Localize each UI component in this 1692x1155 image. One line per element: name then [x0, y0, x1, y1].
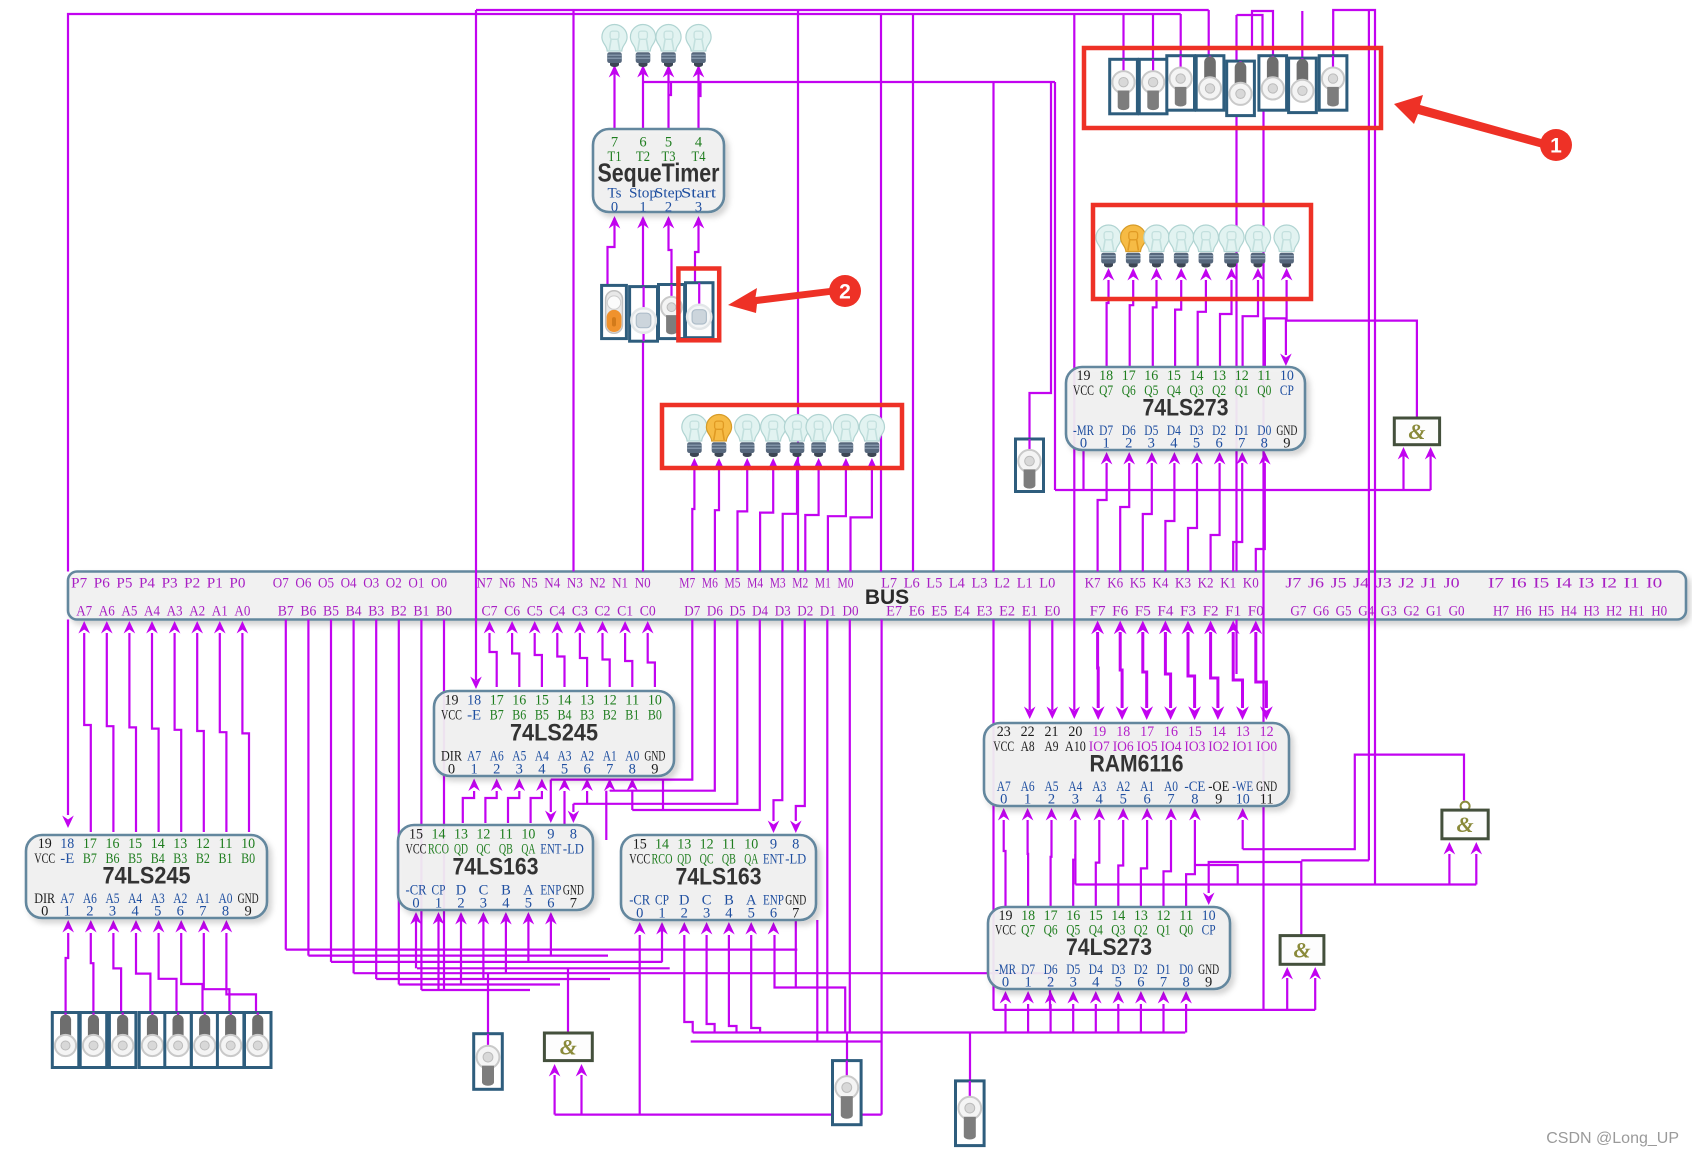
svg-text:4: 4	[502, 895, 510, 911]
svg-text:0: 0	[412, 895, 419, 911]
svg-text:IO0: IO0	[1256, 739, 1277, 755]
svg-text:B2: B2	[196, 851, 210, 867]
svg-text:P0: P0	[229, 576, 245, 592]
svg-text:15: 15	[409, 827, 423, 843]
svg-text:14: 14	[655, 837, 670, 853]
wire x817 to trunk y1041	[816, 920, 818, 1042]
svg-text:12: 12	[1260, 724, 1274, 740]
svg-text:4: 4	[725, 905, 733, 921]
wire AND G3 output to U7 CP	[1209, 862, 1302, 936]
wire bundle U7 Q outputs to RAM address pins	[998, 808, 1201, 907]
svg-text:K3: K3	[1175, 576, 1191, 592]
svg-text:RCO: RCO	[652, 852, 673, 868]
wire BUS E1 to RAM A8	[1029, 620, 1031, 711]
svg-text:15: 15	[633, 837, 647, 853]
wire U5 163b ENP via bracket	[775, 935, 846, 1033]
svg-text:19: 19	[38, 836, 52, 852]
svg-text:1: 1	[1550, 135, 1562, 158]
svg-text:15: 15	[535, 693, 549, 709]
wire connector x881	[880, 620, 882, 1033]
lamp LR1	[1096, 225, 1121, 268]
svg-text:H6: H6	[1516, 604, 1532, 620]
svg-text:M2: M2	[792, 576, 808, 592]
svg-text:74LS163: 74LS163	[453, 854, 539, 881]
svg-text:F2: F2	[1203, 604, 1219, 620]
switch SW1-1 key	[1110, 59, 1138, 114]
svg-text:8: 8	[629, 761, 636, 777]
svg-text:B4: B4	[346, 604, 362, 620]
switch SW1-8 key	[1319, 56, 1347, 110]
svg-text:VCC: VCC	[993, 739, 1014, 755]
svg-text:0: 0	[1002, 975, 1009, 991]
wire trunk C to BUS D5	[573, 620, 737, 804]
svg-text:M4: M4	[747, 576, 763, 592]
svg-text:17: 17	[83, 836, 97, 852]
svg-text:A6: A6	[99, 604, 115, 620]
lamp LR8	[1274, 225, 1299, 268]
lamp LM7	[833, 415, 858, 458]
svg-text:10: 10	[1236, 791, 1250, 807]
switch SW-B key	[474, 1034, 503, 1090]
svg-text:N2: N2	[590, 576, 606, 592]
svg-text:K7: K7	[1085, 576, 1101, 592]
svg-text:A8: A8	[1021, 739, 1035, 755]
svg-text:7: 7	[199, 903, 206, 919]
lamp L1	[602, 24, 627, 67]
svg-text:B0: B0	[436, 604, 452, 620]
wire U0 T1 to lamp L1	[613, 66, 615, 129]
svg-text:F0: F0	[1248, 604, 1264, 620]
wire drop to switch SW1-1	[1122, 14, 1124, 60]
svg-text:L2: L2	[994, 576, 1010, 592]
wire switch SW-B to trunk	[487, 973, 489, 1034]
svg-text:G0: G0	[1449, 604, 1465, 620]
wire drop x993 to BUS and RAM area	[992, 82, 994, 572]
wire AND G1 inputs from rail y490	[1055, 489, 1431, 491]
svg-text:G7: G7	[1290, 604, 1306, 620]
svg-text:J4: J4	[1353, 576, 1370, 592]
svg-text:5: 5	[1115, 975, 1122, 991]
svg-text:6: 6	[547, 895, 554, 911]
lamp L2	[630, 24, 655, 67]
svg-text:N0: N0	[635, 576, 651, 592]
wire switch SW1-6 bracket	[1252, 11, 1273, 56]
switch SW2-2 button	[630, 287, 658, 342]
svg-text:I5: I5	[1533, 576, 1549, 592]
svg-text:1: 1	[470, 761, 477, 777]
svg-text:O7: O7	[273, 576, 289, 592]
svg-text:3: 3	[516, 761, 523, 777]
svg-text:7: 7	[792, 905, 799, 921]
svg-text:CP: CP	[1202, 923, 1216, 939]
svg-text:A4: A4	[144, 604, 160, 620]
wire BUS D2 to U5 163b pin8	[796, 620, 805, 822]
wire bundle U3 B pins to BUS C7-C0	[484, 621, 655, 687]
svg-text:4: 4	[538, 761, 546, 777]
svg-text:12: 12	[1235, 368, 1249, 384]
svg-text:CP: CP	[1280, 383, 1294, 399]
wire switch SW2-4 to U0 Start	[695, 218, 699, 283]
svg-text:I7: I7	[1488, 576, 1505, 592]
svg-text:74LS245: 74LS245	[510, 720, 598, 747]
annotation red box right lamps	[1093, 205, 1311, 299]
svg-text:&: &	[560, 1034, 577, 1059]
wire BUS E0 to RAM A9	[1051, 620, 1053, 711]
wire switch SW2-2 to U0 Stop	[642, 218, 644, 287]
svg-text:23: 23	[997, 724, 1011, 740]
wire switch SW2-3 to U0 Step	[669, 218, 672, 285]
svg-text:4: 4	[1092, 975, 1100, 991]
svg-text:D4: D4	[752, 604, 768, 620]
svg-text:19: 19	[445, 693, 459, 709]
svg-text:D7: D7	[684, 604, 700, 620]
wire U0 T2 to lamp L2 and rail	[642, 66, 644, 129]
svg-text:H3: H3	[1583, 604, 1599, 620]
svg-text:K0: K0	[1243, 576, 1259, 592]
svg-text:Q0: Q0	[1257, 383, 1271, 399]
svg-text:15: 15	[1188, 724, 1202, 740]
wire drop x913 to BUS	[912, 14, 914, 572]
switch SW3-8 key	[245, 1013, 272, 1068]
svg-text:0: 0	[636, 905, 643, 921]
svg-text:10: 10	[744, 837, 758, 853]
svg-text:10: 10	[1280, 368, 1294, 384]
svg-text:22: 22	[1021, 724, 1035, 740]
switch SW-C key	[833, 1061, 862, 1125]
svg-text:CSDN @Long_UP: CSDN @Long_UP	[1546, 1130, 1679, 1147]
wire switch SW1-7 up	[1301, 11, 1303, 58]
annotation arrow 1	[1394, 95, 1543, 148]
bus bar BUS	[68, 572, 1686, 620]
wire long vertical from SW1-6 to bottom trunk	[1262, 61, 1264, 1010]
svg-text:G1: G1	[1426, 604, 1442, 620]
svg-text:VCC: VCC	[629, 852, 650, 868]
svg-text:K6: K6	[1107, 576, 1123, 592]
svg-text:-LD: -LD	[785, 852, 806, 868]
wire U1 -MR to rail y490	[1082, 451, 1084, 491]
svg-text:ENT: ENT	[540, 842, 561, 858]
svg-text:ENT: ENT	[763, 852, 784, 868]
wire U5 163b GND col down	[795, 920, 797, 988]
wire trunk B to BUS D6	[610, 620, 715, 791]
svg-text:H4: H4	[1561, 604, 1577, 620]
svg-text:2: 2	[493, 761, 500, 777]
svg-text:P2: P2	[184, 576, 200, 592]
svg-text:B2: B2	[603, 708, 617, 724]
svg-text:B3: B3	[368, 604, 384, 620]
svg-text:13: 13	[173, 836, 187, 852]
svg-text:11: 11	[1257, 368, 1271, 384]
svg-text:VCC: VCC	[441, 708, 462, 724]
svg-text:G2: G2	[1403, 604, 1419, 620]
lamp LR2	[1121, 225, 1146, 268]
svg-text:0: 0	[1080, 435, 1087, 451]
svg-text:18: 18	[467, 693, 481, 709]
svg-text:3: 3	[703, 905, 710, 921]
timer U0 SequeTimer	[593, 129, 724, 216]
svg-text:BUS: BUS	[865, 586, 909, 609]
svg-text:Q7: Q7	[1099, 383, 1113, 399]
wire drop to switch SW1-4	[1208, 10, 1210, 56]
memory U2 RAM6116	[984, 723, 1289, 807]
svg-text:N3: N3	[567, 576, 583, 592]
wire U3 pin5 down	[563, 791, 565, 824]
svg-text:E1: E1	[1022, 604, 1038, 620]
svg-text:IO2: IO2	[1208, 739, 1229, 755]
wire trunk y1041	[691, 1040, 882, 1042]
lamp LM5	[784, 415, 809, 458]
svg-text:P6: P6	[94, 576, 111, 592]
svg-text:15: 15	[128, 836, 142, 852]
wire x1055 to AND gate rail	[1054, 82, 1056, 490]
lamp LR4	[1169, 225, 1194, 268]
svg-text:I0: I0	[1646, 576, 1662, 592]
svg-text:I3: I3	[1578, 576, 1594, 592]
svg-text:14: 14	[558, 693, 573, 709]
svg-text:3: 3	[695, 200, 702, 216]
svg-text:J1: J1	[1421, 576, 1437, 592]
svg-text:C2: C2	[595, 604, 611, 620]
svg-text:G6: G6	[1313, 604, 1329, 620]
svg-text:6: 6	[177, 903, 184, 919]
svg-text:VCC: VCC	[995, 923, 1016, 939]
svg-text:E5: E5	[931, 604, 947, 620]
svg-text:C6: C6	[504, 604, 520, 620]
svg-text:7: 7	[570, 895, 577, 911]
svg-text:3: 3	[1148, 435, 1155, 451]
svg-text:9: 9	[244, 903, 251, 919]
svg-text:A5: A5	[121, 604, 137, 620]
svg-text:E4: E4	[954, 604, 970, 620]
svg-text:P4: P4	[139, 576, 156, 592]
svg-text:13: 13	[677, 837, 691, 853]
svg-text:3: 3	[480, 895, 487, 911]
wire x1051 to switch SW-A	[1030, 82, 1052, 440]
svg-text:A1: A1	[212, 604, 228, 620]
svg-text:K1: K1	[1220, 576, 1236, 592]
svg-text:H2: H2	[1606, 604, 1622, 620]
wire trunk y1114	[555, 1113, 882, 1115]
wire AND G2 inputs from rail y884	[1075, 883, 1476, 885]
switch SW3-3 key	[109, 1013, 135, 1068]
svg-text:-E: -E	[60, 851, 74, 867]
svg-text:B0: B0	[241, 851, 255, 867]
svg-text:-E: -E	[467, 708, 481, 724]
svg-text:6: 6	[1137, 975, 1144, 991]
switch SW3-2 key	[80, 1013, 107, 1068]
svg-text:D0: D0	[843, 604, 859, 620]
svg-text:J2: J2	[1398, 576, 1414, 592]
svg-text:L5: L5	[926, 576, 942, 592]
svg-text:O5: O5	[318, 576, 334, 592]
svg-text:M7: M7	[679, 576, 695, 592]
switch SW1-3 key	[1167, 56, 1195, 110]
svg-text:18: 18	[60, 836, 74, 852]
svg-text:B7: B7	[83, 851, 97, 867]
wire D1 D0 to bottom trunk	[826, 620, 828, 1033]
annotation arrow 2	[728, 288, 831, 313]
svg-text:F3: F3	[1180, 604, 1196, 620]
svg-text:9: 9	[547, 827, 554, 843]
wire G3 junction to x1369	[1301, 859, 1369, 861]
wire BUS to U6 -E pin18	[67, 620, 69, 816]
wire U5 163b -CR to bottom trunk	[639, 935, 641, 1115]
wire U3 pin7 to trunk B	[609, 790, 611, 792]
svg-text:-LD: -LD	[563, 842, 584, 858]
svg-text:6: 6	[770, 905, 777, 921]
svg-text:RAM6116: RAM6116	[1090, 750, 1184, 777]
wire bundle BUS F7-F0 to RAM IO pins	[1091, 621, 1273, 721]
wire risers to U4 163a control pins	[410, 912, 557, 990]
svg-text:J6: J6	[1308, 576, 1325, 592]
svg-text:11: 11	[722, 837, 736, 853]
svg-text:F1: F1	[1225, 604, 1241, 620]
svg-text:8: 8	[1261, 435, 1268, 451]
svg-text:C5: C5	[527, 604, 543, 620]
lamp L4	[686, 24, 711, 67]
wire bundle U3 A7-A4 pins to U4 163a outputs	[463, 779, 548, 824]
wire net T2 rail y82	[643, 81, 1055, 83]
svg-text:12: 12	[476, 827, 490, 843]
wire AND G3 inputs from trunk y1010	[1286, 978, 1288, 1010]
wire notch T3	[669, 82, 672, 95]
wire bundle U1 Q outputs to lamps LR1-LR8	[1103, 268, 1293, 367]
wire bundle BUS B7-B0 down to trunk stack	[286, 620, 1050, 1010]
svg-text:H0: H0	[1651, 604, 1667, 620]
wire drop x1074 to RAM A10	[1073, 14, 1075, 710]
wire U0 T3 to lamp L3	[667, 66, 669, 129]
wire switch SW-D from trunk	[969, 1033, 971, 1082]
svg-text:7: 7	[1167, 791, 1174, 807]
wire drop x573 to BUS	[572, 10, 574, 572]
switch SW3-1 key	[52, 1013, 79, 1068]
wire drop to switch SW1-2	[1152, 14, 1154, 60]
switch SW-D key	[956, 1081, 985, 1146]
wire AND G2 output to RAM -WE	[1242, 820, 1244, 849]
svg-text:L1: L1	[1017, 576, 1033, 592]
svg-text:D1: D1	[820, 604, 836, 620]
wire drop x798 to BUS	[797, 10, 799, 572]
svg-text:M5: M5	[725, 576, 741, 592]
wire U3 pin6 to trunk C	[586, 791, 588, 804]
svg-text:I1: I1	[1624, 576, 1640, 592]
svg-text:H1: H1	[1629, 604, 1645, 620]
annotation red box 2 switch	[678, 269, 719, 341]
wire AND G4 inputs	[553, 1075, 555, 1115]
svg-text:SequeTimer: SequeTimer	[598, 158, 720, 188]
svg-text:11: 11	[499, 827, 513, 843]
svg-text:IO3: IO3	[1184, 739, 1205, 755]
svg-text:1: 1	[658, 905, 665, 921]
switch SW1-4 key	[1196, 56, 1224, 110]
svg-text:8: 8	[1191, 791, 1198, 807]
svg-text:Q6: Q6	[1122, 383, 1136, 399]
switch SW2-1 toggle	[602, 285, 627, 338]
svg-text:B1: B1	[413, 604, 429, 620]
svg-text:1: 1	[639, 200, 646, 216]
lamp LR3	[1144, 225, 1169, 268]
svg-text:11: 11	[625, 693, 639, 709]
svg-text:6: 6	[1215, 435, 1222, 451]
svg-text:O0: O0	[431, 576, 447, 592]
svg-text:B7: B7	[278, 604, 294, 620]
svg-text:17: 17	[1122, 368, 1136, 384]
svg-text:5: 5	[525, 895, 532, 911]
svg-text:M3: M3	[770, 576, 786, 592]
svg-text:20: 20	[1068, 724, 1082, 740]
svg-text:18: 18	[1099, 368, 1113, 384]
wire U0 T4 to lamp L4	[697, 66, 699, 129]
svg-text:0: 0	[41, 903, 48, 919]
register U1 74LS273	[1066, 367, 1305, 451]
svg-text:K2: K2	[1198, 576, 1214, 592]
svg-text:O2: O2	[386, 576, 402, 592]
svg-text:B6: B6	[300, 604, 316, 620]
svg-text:M0: M0	[838, 576, 854, 592]
svg-text:P5: P5	[116, 576, 132, 592]
svg-text:15: 15	[1167, 368, 1181, 384]
svg-text:10: 10	[521, 827, 535, 843]
transceiver U6 74LS245	[26, 835, 267, 919]
wire notch T4	[699, 82, 701, 96]
wire trunk A to BUS D7	[551, 620, 693, 780]
wire to U4 163a pin8	[572, 804, 574, 812]
bus pin labels	[71, 576, 1667, 620]
switch SW1-7 key	[1289, 58, 1317, 113]
annotation callout circle 2	[829, 275, 861, 307]
wire switch SW1-5 bracket	[1237, 15, 1263, 48]
switch SW2-3 key	[659, 285, 685, 339]
svg-text:L0: L0	[1039, 576, 1055, 592]
svg-text:E6: E6	[909, 604, 925, 620]
svg-text:D6: D6	[707, 604, 723, 620]
wire BUS D3 to U5 163b pin9	[774, 620, 783, 822]
svg-text:P3: P3	[162, 576, 178, 592]
svg-text:&: &	[1408, 419, 1425, 444]
svg-text:17: 17	[490, 693, 504, 709]
svg-text:74LS273: 74LS273	[1066, 934, 1152, 961]
svg-text:74LS273: 74LS273	[1143, 394, 1229, 421]
svg-text:5: 5	[748, 905, 755, 921]
wire bundle switches SW3 to U6 A pins	[62, 920, 256, 1014]
svg-text:9: 9	[1215, 791, 1222, 807]
switch SW3-4 key	[139, 1013, 166, 1068]
svg-text:1: 1	[435, 895, 442, 911]
svg-text:13: 13	[1212, 368, 1226, 384]
svg-text:4: 4	[1170, 435, 1178, 451]
lamp LM2	[706, 415, 731, 458]
wire right vertical x1369	[1368, 10, 1370, 860]
svg-text:2: 2	[86, 903, 93, 919]
svg-text:D2: D2	[797, 604, 813, 620]
svg-text:N1: N1	[612, 576, 628, 592]
svg-text:12: 12	[196, 836, 210, 852]
svg-text:N5: N5	[522, 576, 538, 592]
svg-text:13: 13	[580, 693, 594, 709]
lamp LR7	[1245, 225, 1270, 267]
svg-text:B5: B5	[323, 604, 339, 620]
wire switch SW2-2 to BUS N0	[642, 341, 644, 571]
svg-text:B1: B1	[625, 708, 639, 724]
svg-text:19: 19	[1077, 368, 1091, 384]
svg-text:0: 0	[611, 200, 618, 216]
svg-text:G5: G5	[1336, 604, 1352, 620]
svg-text:7: 7	[1238, 435, 1245, 451]
wire net top rail y10	[476, 9, 1209, 11]
wire bundle U5 163b D C B A pins to trunk	[679, 922, 761, 1033]
wire trunk y1032	[693, 1031, 1186, 1033]
switch SW3-7 key	[217, 1013, 244, 1068]
